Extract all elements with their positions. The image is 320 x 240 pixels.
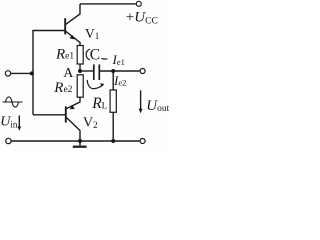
- svg-text:Re2: Re2: [53, 80, 72, 96]
- svg-text:+UCC: +UCC: [126, 10, 158, 27]
- svg-text:A: A: [63, 66, 74, 81]
- svg-text:C: C: [90, 46, 100, 63]
- svg-text:RL: RL: [91, 95, 107, 112]
- svg-text:Uin: Uin: [0, 115, 18, 130]
- svg-text:V1: V1: [85, 26, 99, 41]
- svg-text:Ie2: Ie2: [113, 73, 126, 88]
- svg-text:V2: V2: [83, 115, 98, 130]
- svg-text:Ie1: Ie1: [112, 52, 125, 67]
- svg-text:Re1: Re1: [55, 46, 74, 62]
- svg-text:Uout: Uout: [146, 98, 169, 114]
